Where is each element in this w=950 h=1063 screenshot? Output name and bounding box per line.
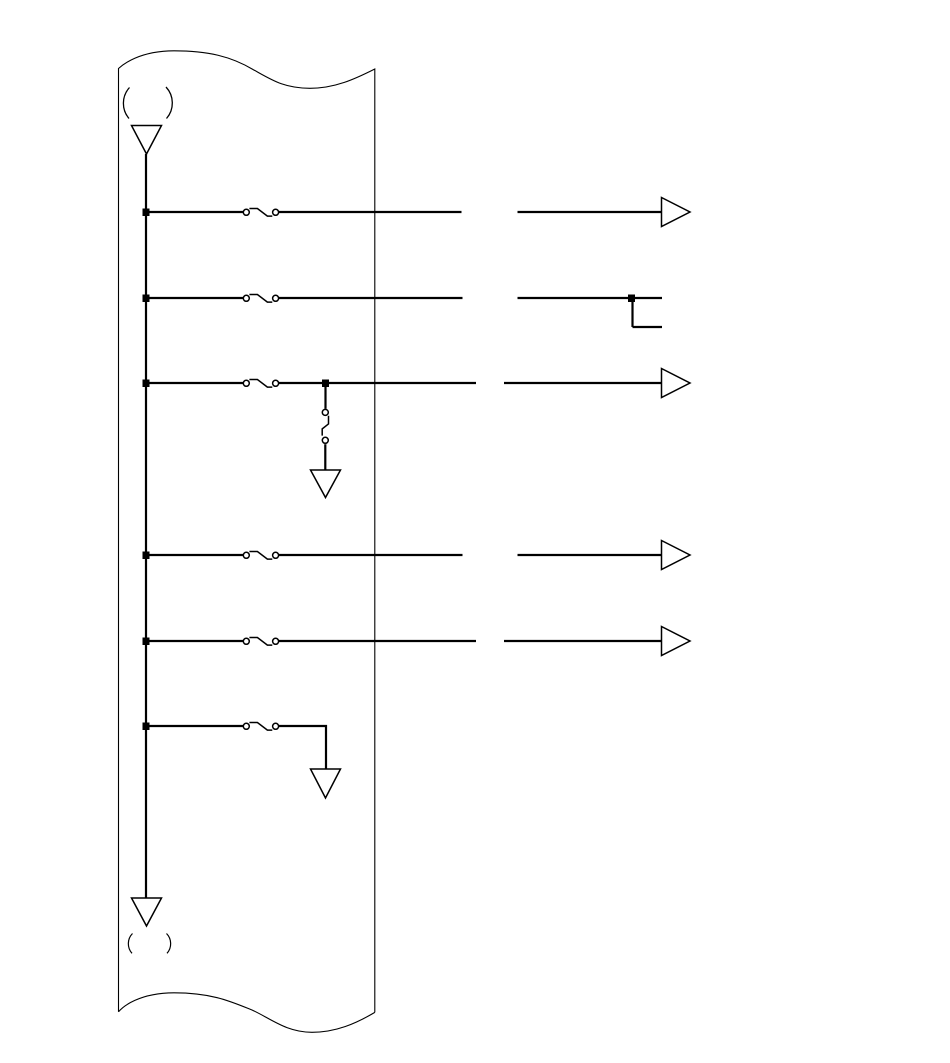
wire row6 right xyxy=(279,726,326,769)
off-page wire row4 xyxy=(518,554,662,556)
net label placeholder ( ) bottom xyxy=(128,934,170,954)
fuse row6 xyxy=(243,723,278,731)
wire row3 right xyxy=(279,382,476,384)
wire row1 left xyxy=(146,211,243,213)
off-page arrow row5 xyxy=(662,627,691,656)
ground symbol row3 xyxy=(311,470,341,498)
wire row3 tap vertical xyxy=(324,383,326,409)
wire row5 left xyxy=(146,640,243,642)
wire row4 left xyxy=(146,554,243,556)
junction dot row1 xyxy=(143,209,150,217)
wire row5 right xyxy=(279,640,476,642)
junction dot row2 right xyxy=(628,295,635,303)
junction dot row2 xyxy=(143,295,150,303)
power terminator symbol bottom xyxy=(132,898,162,926)
off-page wire row5 xyxy=(504,640,662,642)
off-page wire row3 xyxy=(504,382,662,384)
vertical bus wire xyxy=(145,154,147,898)
fuse row5 xyxy=(243,638,278,646)
junction dot row3 tap xyxy=(322,380,329,388)
wire row4 right xyxy=(279,554,463,556)
off-page arrow row1 xyxy=(662,198,691,227)
fuse row3 xyxy=(243,380,278,388)
off-page wire row1 xyxy=(518,211,662,213)
power terminator symbol top xyxy=(132,126,162,155)
junction dot row4 xyxy=(143,552,150,560)
off-page arrow row4 xyxy=(662,541,691,570)
wire row2 left xyxy=(146,297,243,299)
wire row1 right xyxy=(279,211,462,213)
junction dot row6 xyxy=(143,723,150,731)
fuse row1 xyxy=(243,209,278,217)
cable/sheet boundary bottom wave xyxy=(119,993,375,1033)
wire row2 right xyxy=(279,297,463,299)
junction dot row3 xyxy=(143,380,150,388)
fuse row3 vertical xyxy=(322,409,328,443)
fuse row4 xyxy=(243,552,278,560)
off-page wire row2 xyxy=(518,297,663,299)
wire row2 step horizontal xyxy=(633,326,663,328)
wire row6 left xyxy=(146,725,243,727)
wire row3 to ground xyxy=(324,444,326,470)
junction dot row5 xyxy=(143,638,150,646)
ground symbol row6 xyxy=(311,769,341,798)
off-page arrow row3 xyxy=(662,369,691,398)
wire row3 left xyxy=(146,382,243,384)
cable/sheet boundary W1 xyxy=(119,51,375,1013)
net label placeholder ( ) top xyxy=(123,87,172,119)
wire row2 step vertical xyxy=(631,298,633,327)
fuse row2 xyxy=(243,295,278,303)
